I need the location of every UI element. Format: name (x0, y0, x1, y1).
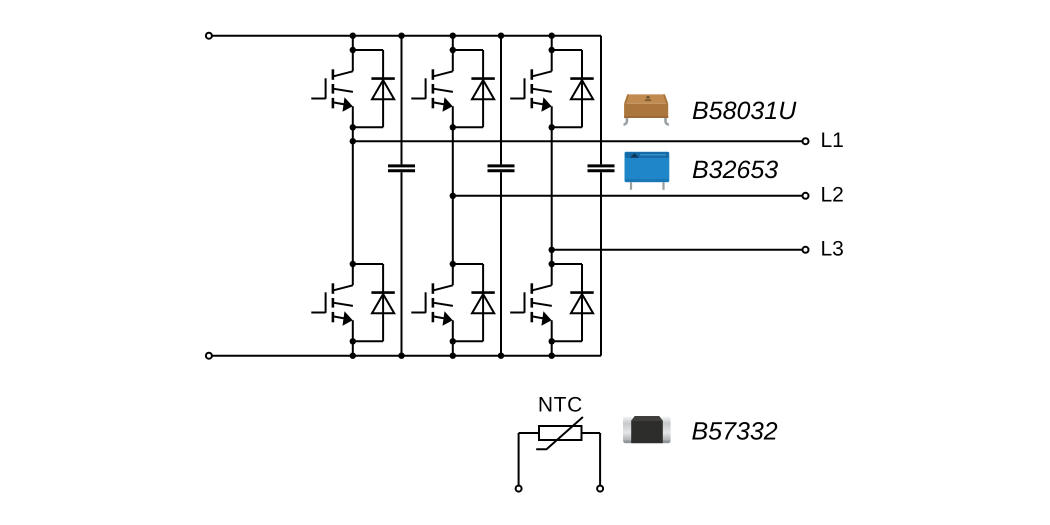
node leg 2 top rail junction (450, 33, 456, 39)
node leg 2 diode-top junction (450, 47, 456, 53)
terminal NTC right (597, 486, 603, 492)
node leg 3 bottom rail junction (549, 353, 555, 359)
node phase L1 tap (350, 138, 356, 144)
wire phase leg 3 emitter drop (bottom) (551, 320, 553, 355)
node leg 3 low diode-bottom junction (549, 338, 555, 344)
svg-text:B32653: B32653 (692, 156, 778, 184)
node leg 2 diode-bottom junction (450, 124, 456, 130)
svg-text:L3: L3 (821, 238, 844, 261)
capacitor C3 (DC link) (588, 166, 615, 171)
node leg 2 low diode-bottom junction (450, 338, 456, 344)
capacitor C2 (DC link) (488, 166, 515, 171)
transistor T3 high-side (IGBT) (510, 69, 552, 111)
wire phase output L2 (453, 195, 802, 197)
wire phase leg 1 collector drop (top) (352, 36, 354, 72)
freewheeling diode D1 high-side (353, 50, 395, 127)
svg-text:L1: L1 (821, 129, 844, 152)
thermistor RT1 (NTC) body (539, 426, 582, 440)
wire DC-link bus 3 upper (600, 36, 602, 165)
transistor T2 high-side (IGBT) (411, 69, 453, 111)
terminal L3 (803, 247, 809, 253)
wire DC- bottom rail (212, 355, 601, 357)
wire phase leg 1 midline (352, 106, 354, 285)
product photo SMD NTC B57332 (623, 416, 671, 443)
product photo film capacitor B32653 (625, 152, 670, 190)
wire DC-link bus 1 lower (401, 172, 403, 355)
product photo CeraLink capacitor B58031U (624, 94, 669, 124)
terminal L1 (803, 138, 809, 144)
terminal NTC left (516, 486, 522, 492)
wire phase leg 2 midline (452, 106, 454, 285)
freewheeling diode D6 low-side (552, 264, 594, 341)
node leg 3 low diode-top junction (549, 261, 555, 267)
node leg 1 diode-bottom junction (350, 124, 356, 130)
node leg 1 low diode-top junction (350, 261, 356, 267)
node leg 2 low diode-top junction (450, 261, 456, 267)
wire phase leg 3 midline (551, 106, 553, 285)
node leg 1 diode-top junction (350, 47, 356, 53)
capacitor C1 (DC link) (388, 166, 415, 171)
transistor T5 low-side (IGBT) (411, 283, 453, 325)
wire DC-link bus 1 upper (401, 36, 403, 165)
wire phase output L1 (353, 140, 802, 142)
wire phase leg 2 collector drop (top) (452, 36, 454, 72)
node leg 3 top rail junction (549, 33, 555, 39)
svg-text:B57332: B57332 (692, 417, 778, 445)
wire DC+ top rail (212, 35, 601, 37)
terminal DC+ input (206, 33, 212, 39)
node bus 1 top rail junction (398, 33, 404, 39)
wire DC-link bus 2 lower (500, 172, 502, 355)
node phase L2 tap (450, 193, 456, 199)
svg-text:NTC: NTC (538, 394, 583, 417)
freewheeling diode D4 low-side (353, 264, 395, 341)
node bus 2 bottom rail junction (498, 353, 504, 359)
freewheeling diode D2 high-side (453, 50, 495, 127)
node leg 1 top rail junction (350, 33, 356, 39)
wire phase leg 3 collector drop (top) (551, 36, 553, 72)
node leg 1 bottom rail junction (350, 353, 356, 359)
wire phase leg 2 emitter drop (bottom) (452, 320, 454, 355)
node bus 2 top rail junction (498, 33, 504, 39)
node bus 1 bottom rail junction (398, 353, 404, 359)
node leg 3 diode-top junction (549, 47, 555, 53)
terminal DC- input (206, 353, 212, 359)
node phase L3 tap (549, 247, 555, 253)
wire phase leg 1 emitter drop (bottom) (352, 320, 354, 355)
transistor T4 low-side (IGBT) (311, 283, 353, 325)
wire DC-link bus 2 upper (500, 36, 502, 165)
thermistor RT1 strike line (536, 417, 583, 449)
freewheeling diode D5 low-side (453, 264, 495, 341)
node leg 2 bottom rail junction (450, 353, 456, 359)
freewheeling diode D3 high-side (552, 50, 594, 127)
wire NTC right lead (582, 433, 601, 485)
wire phase output L3 (552, 249, 802, 251)
wire NTC left lead (519, 433, 539, 485)
wire DC-link bus 3 lower (600, 172, 602, 355)
transistor T6 low-side (IGBT) (510, 283, 552, 325)
node leg 1 low diode-bottom junction (350, 338, 356, 344)
svg-text:B58031U: B58031U (692, 97, 797, 125)
terminal L2 (803, 193, 809, 199)
svg-text:L2: L2 (821, 184, 844, 207)
node leg 3 diode-bottom junction (549, 124, 555, 130)
transistor T1 high-side (IGBT) (311, 69, 353, 111)
